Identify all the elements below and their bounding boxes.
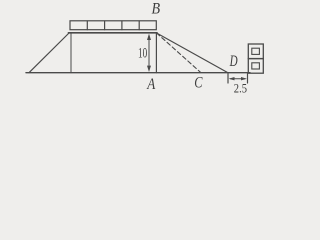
ground line [26, 72, 250, 74]
building outer top square [248, 44, 263, 59]
left slope [29, 33, 69, 73]
svg-text:C: C [194, 75, 202, 92]
battlement divider 2 [104, 21, 106, 30]
svg-text:2.5: 2.5 [234, 81, 247, 96]
arrowhead left (2.5) [229, 77, 235, 80]
svg-text:A: A [146, 76, 155, 93]
svg-text:D: D [229, 53, 238, 70]
building window bottom [252, 63, 260, 69]
tick left of 2.5 [227, 74, 229, 84]
slope BD solid [157, 33, 228, 73]
building outer bottom square [248, 59, 263, 74]
internal vertical line [70, 33, 72, 73]
battlement divider 1 [86, 21, 88, 30]
arrowhead down (bottom of 10) [147, 66, 151, 72]
battlement divider 3 [121, 21, 123, 30]
battlement divider 4 [138, 21, 140, 30]
tick right of 2.5 [247, 74, 249, 84]
svg-text:10: 10 [138, 45, 147, 61]
right vertical edge BA [155, 33, 157, 73]
arrowhead up (top of 10) [147, 34, 151, 40]
arrowhead right (2.5) [241, 77, 247, 80]
dashed line BC [157, 33, 201, 72]
svg-text:B: B [152, 0, 161, 17]
battlement row [70, 21, 156, 30]
dam top line [69, 32, 158, 34]
dimension arrow 2.5 [231, 78, 246, 80]
dimension line 10 [148, 36, 150, 70]
building window top [252, 48, 260, 54]
